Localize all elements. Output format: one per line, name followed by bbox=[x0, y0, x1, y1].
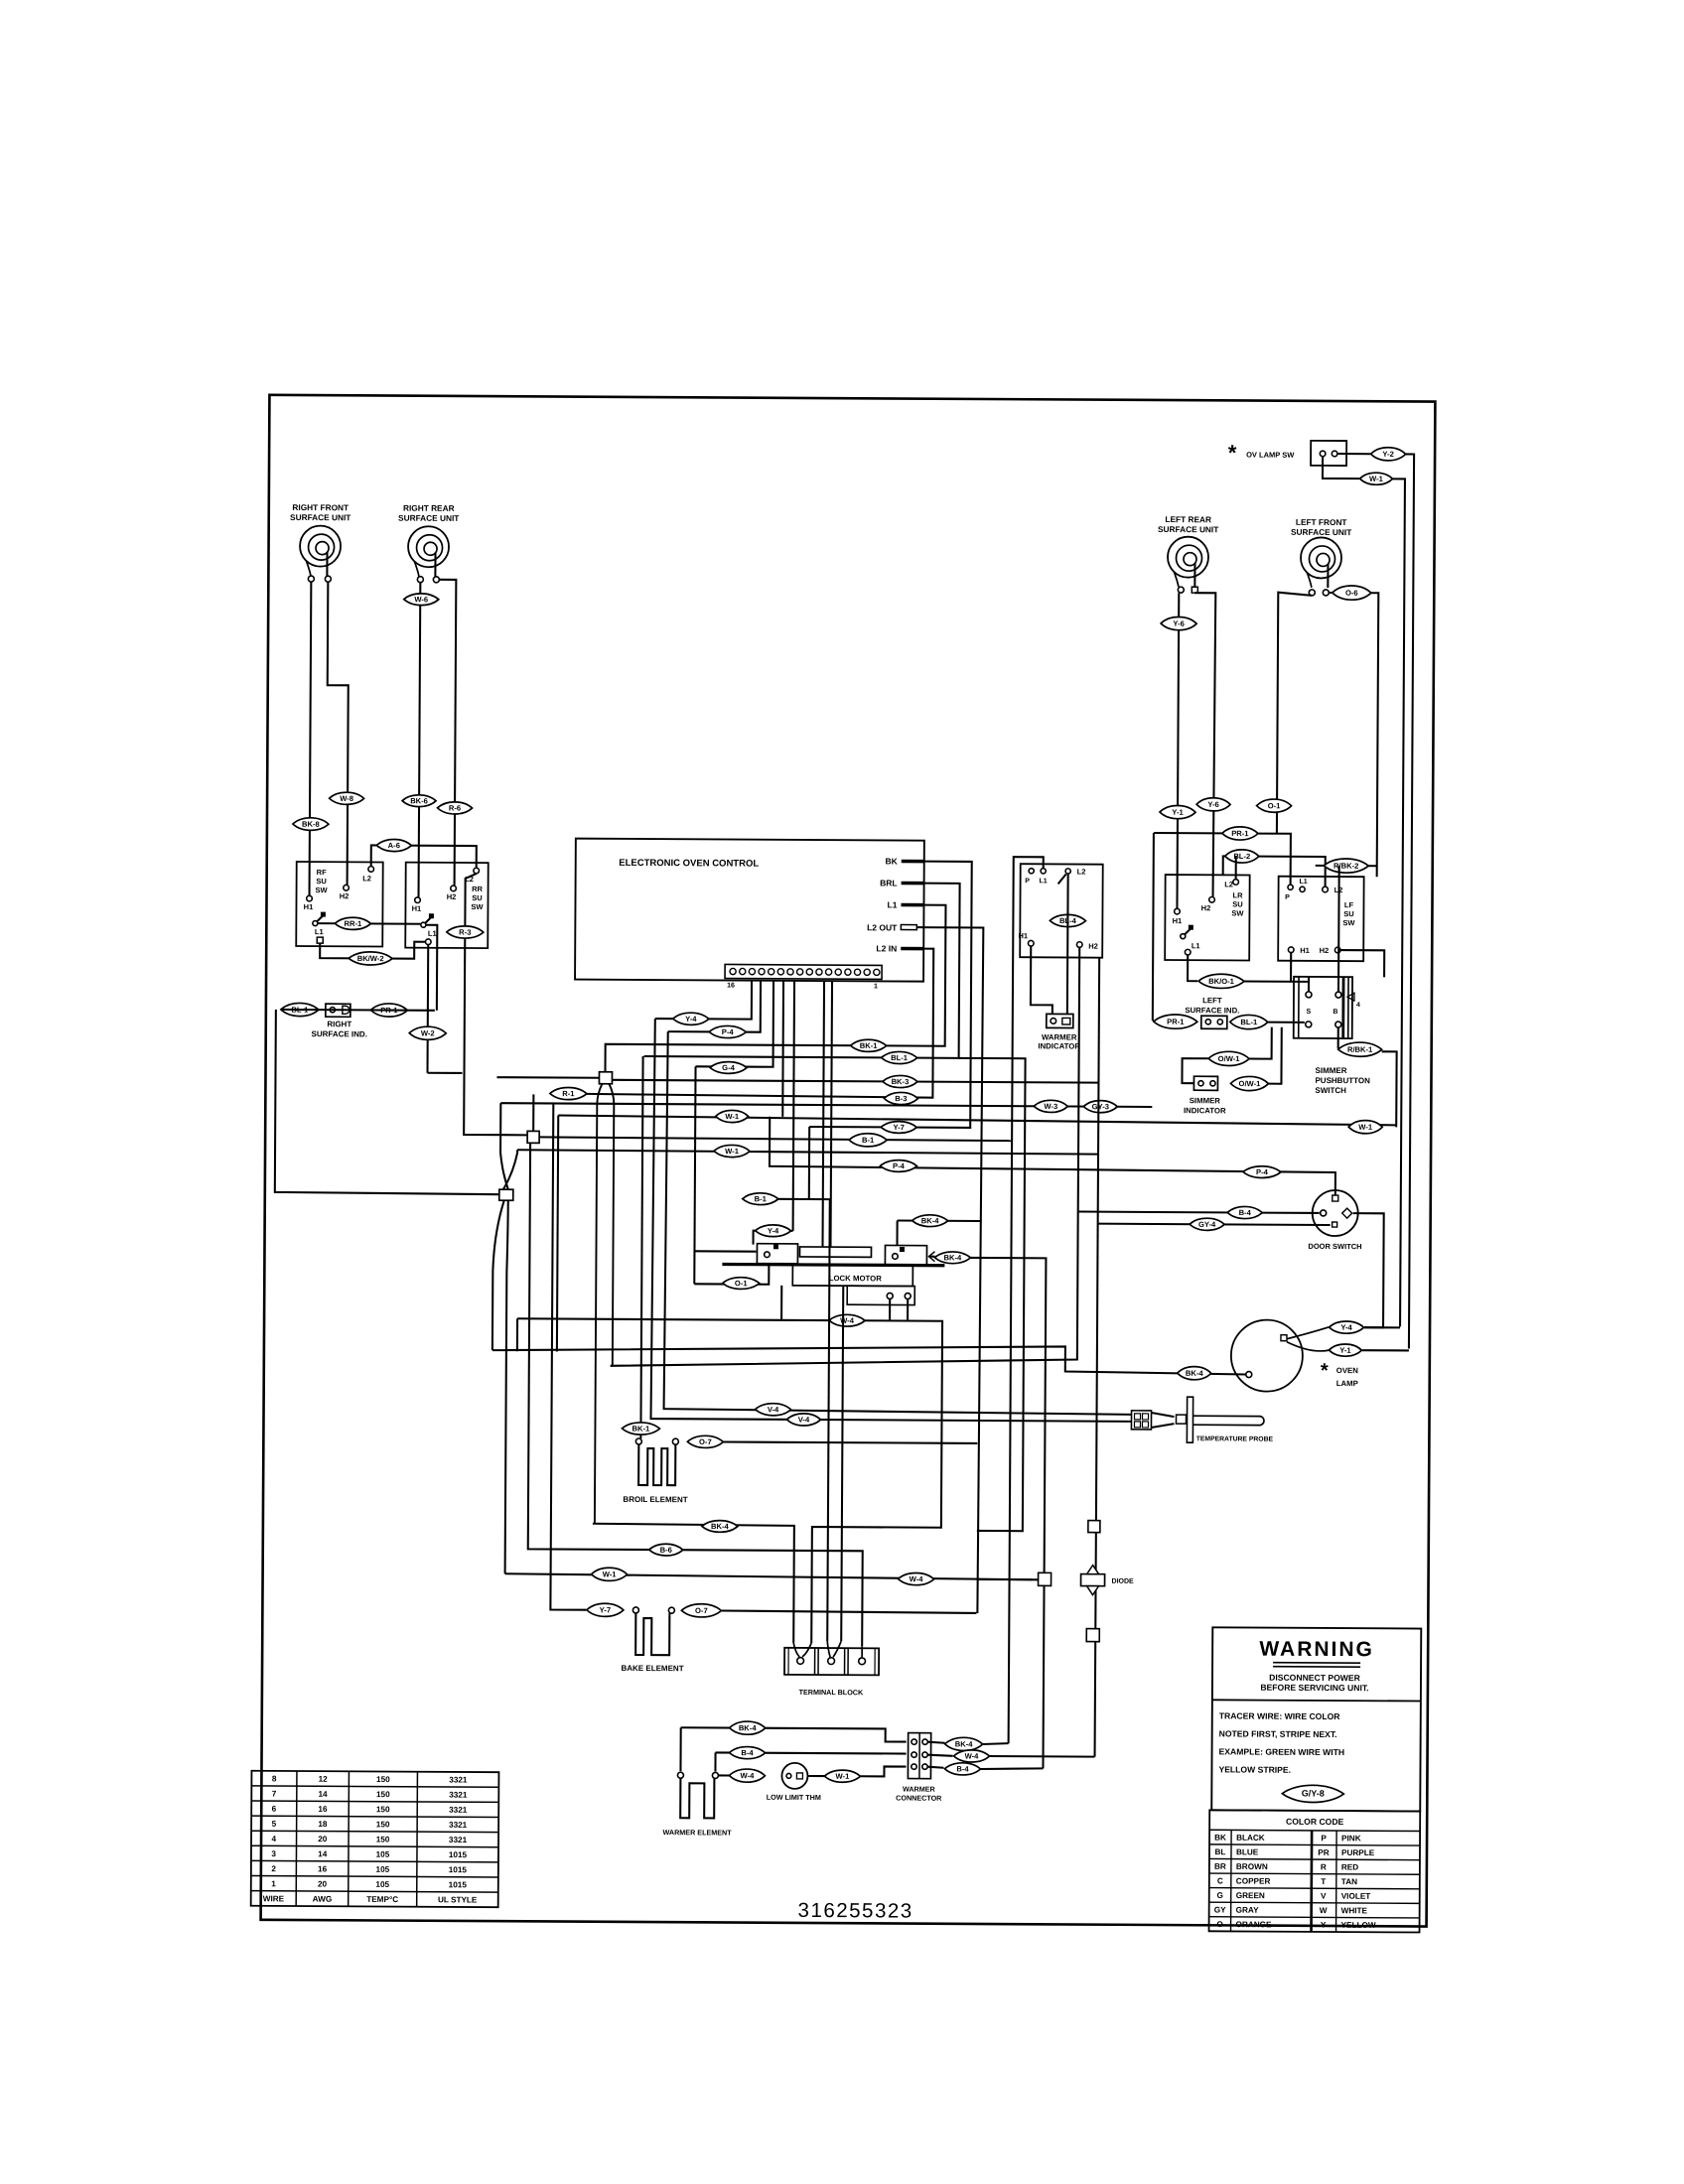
svg-text:H1: H1 bbox=[304, 902, 314, 911]
wire strip drop 4 bbox=[781, 981, 784, 1117]
svg-text:1: 1 bbox=[271, 1879, 276, 1888]
connector BL-1b bbox=[882, 1051, 917, 1063]
svg-text:BK-4: BK-4 bbox=[944, 1253, 963, 1262]
wire warmer left drop bbox=[679, 1727, 681, 1771]
svg-text:H1: H1 bbox=[412, 904, 422, 913]
svg-text:SW: SW bbox=[315, 886, 328, 894]
wire bbox=[714, 1752, 716, 1771]
svg-text:B-4: B-4 bbox=[741, 1748, 754, 1757]
RR L2 contact bbox=[474, 868, 480, 874]
svg-text:150: 150 bbox=[376, 1790, 390, 1799]
svg-text:W-1: W-1 bbox=[603, 1570, 618, 1578]
connector PR-1c bbox=[1154, 1015, 1197, 1028]
svg-text:AWG: AWG bbox=[313, 1895, 333, 1904]
connector W-2 bbox=[409, 1026, 446, 1039]
RR H1 contact bbox=[415, 897, 421, 903]
connector O-6 bbox=[1333, 586, 1371, 600]
svg-text:GY-3: GY-3 bbox=[1092, 1102, 1109, 1111]
svg-text:O/W-1: O/W-1 bbox=[1218, 1054, 1241, 1063]
svg-text:5: 5 bbox=[272, 1820, 277, 1829]
svg-text:R/BK-2: R/BK-2 bbox=[1333, 862, 1358, 871]
svg-text:1015: 1015 bbox=[449, 1880, 468, 1889]
wire simmer top left bbox=[1308, 977, 1310, 992]
wire simmer ind top bbox=[1249, 1027, 1272, 1059]
svg-text:COLOR CODE: COLOR CODE bbox=[1286, 1817, 1344, 1827]
connector W-1f bbox=[824, 1770, 860, 1782]
connector P-4a bbox=[709, 1025, 746, 1037]
svg-text:LR: LR bbox=[1233, 890, 1244, 899]
wire left drop bbox=[275, 1010, 500, 1194]
wire bbox=[428, 1072, 463, 1074]
svg-text:R: R bbox=[1321, 1862, 1327, 1871]
connector RR-1 bbox=[335, 917, 370, 929]
wire bbox=[980, 1768, 1043, 1769]
svg-text:B-6: B-6 bbox=[660, 1546, 672, 1555]
svg-text:SU: SU bbox=[1232, 899, 1242, 908]
svg-text:WARMER: WARMER bbox=[903, 1785, 936, 1794]
svg-text:LOCK MOTOR: LOCK MOTOR bbox=[829, 1274, 883, 1283]
svg-text:L1: L1 bbox=[1300, 879, 1308, 886]
wire bbox=[860, 1766, 906, 1776]
wire bbox=[977, 1578, 1039, 1580]
oven lamp switch SW1 box bbox=[1311, 441, 1346, 466]
LR H2 contact bbox=[1209, 896, 1215, 902]
svg-text:L1: L1 bbox=[315, 927, 324, 936]
svg-text:1: 1 bbox=[874, 983, 878, 990]
low limit thermostat bbox=[781, 1763, 807, 1789]
wire conn right1 bbox=[928, 1742, 945, 1743]
svg-text:Y-4: Y-4 bbox=[768, 1226, 779, 1235]
svg-text:B: B bbox=[1333, 1009, 1337, 1016]
svg-text:PURPLE: PURPLE bbox=[1341, 1848, 1375, 1857]
connector W-8 bbox=[330, 792, 364, 804]
svg-text:P-4: P-4 bbox=[893, 1161, 906, 1170]
wire H5 ext bbox=[956, 1058, 1026, 1531]
connector A-6 bbox=[376, 839, 411, 851]
wire LR L2 tap bbox=[1235, 856, 1237, 879]
EOC stub BK bbox=[902, 860, 924, 864]
wire node A row right bbox=[612, 1080, 1098, 1083]
wire lock right out bbox=[928, 1256, 934, 1258]
connector Y-4a bbox=[673, 1013, 709, 1024]
LF H1 contact bbox=[1288, 947, 1294, 953]
connector R-6 bbox=[438, 802, 473, 814]
svg-text:O-7: O-7 bbox=[695, 1606, 708, 1615]
svg-text:GY: GY bbox=[1214, 1905, 1226, 1914]
svg-text:7: 7 bbox=[272, 1790, 277, 1799]
wire bbox=[827, 1199, 830, 1641]
wire RR right lead bbox=[438, 580, 457, 886]
svg-text:BRL: BRL bbox=[880, 878, 898, 887]
svg-text:LOW LIMIT THM: LOW LIMIT THM bbox=[767, 1793, 821, 1802]
svg-text:W-1: W-1 bbox=[725, 1112, 740, 1121]
warmer connector pins bbox=[912, 1739, 916, 1744]
wire GY-4 row bbox=[1098, 1224, 1331, 1225]
node square D2 bbox=[1086, 1629, 1099, 1642]
svg-text:W: W bbox=[1320, 1906, 1328, 1915]
svg-text:150: 150 bbox=[376, 1775, 390, 1784]
warmer indicator lamp bbox=[1047, 1014, 1073, 1027]
wire bake left feed bbox=[550, 1103, 589, 1609]
right front surface unit coil bbox=[300, 526, 341, 567]
svg-text:SURFACE UNIT: SURFACE UNIT bbox=[398, 513, 459, 523]
svg-text:B-4: B-4 bbox=[1239, 1208, 1252, 1217]
wire LR left lead bbox=[1177, 593, 1179, 908]
svg-text:SW: SW bbox=[1231, 908, 1244, 917]
wire bbox=[1337, 453, 1370, 455]
wire node A up bbox=[606, 903, 946, 1074]
wire probe lower feed bbox=[664, 1031, 1134, 1415]
RF switch arm bbox=[313, 921, 318, 926]
svg-text:Y-7: Y-7 bbox=[600, 1605, 611, 1614]
svg-text:BK: BK bbox=[1214, 1834, 1226, 1843]
wire strip P-4 chain bbox=[668, 980, 761, 1032]
RF H2 contact bbox=[344, 885, 350, 890]
svg-text:H1: H1 bbox=[1018, 931, 1028, 940]
connector O-1b bbox=[723, 1278, 760, 1290]
LR L2 contact bbox=[1233, 880, 1239, 886]
connector W-6 bbox=[404, 594, 439, 606]
connector W-3 bbox=[1034, 1100, 1067, 1112]
wire warmer H1 down bbox=[1031, 946, 1052, 1014]
connector BK-4c bbox=[1178, 1367, 1211, 1380]
svg-text:SU: SU bbox=[472, 893, 482, 902]
svg-text:SU: SU bbox=[316, 877, 326, 886]
svg-text:105: 105 bbox=[375, 1880, 389, 1889]
svg-text:LAMP: LAMP bbox=[1336, 1379, 1358, 1388]
wire lamp Y-4 bbox=[1287, 1327, 1329, 1339]
connector P-4b bbox=[880, 1160, 916, 1172]
wire bbox=[516, 1318, 518, 1351]
svg-text:BR: BR bbox=[1214, 1862, 1226, 1871]
svg-text:LEFT: LEFT bbox=[1202, 996, 1222, 1005]
warmer switch box bbox=[1020, 864, 1103, 957]
svg-text:18: 18 bbox=[318, 1820, 328, 1829]
wire x616 up bbox=[611, 1365, 613, 1367]
svg-text:Y-6: Y-6 bbox=[1173, 619, 1184, 628]
LR switch arm bbox=[1181, 934, 1186, 939]
svg-text:Y-1: Y-1 bbox=[1339, 1346, 1351, 1355]
svg-text:150: 150 bbox=[376, 1805, 390, 1814]
svg-text:W-4: W-4 bbox=[910, 1574, 924, 1583]
connector Y-1b bbox=[1329, 1344, 1361, 1356]
svg-text:3321: 3321 bbox=[449, 1791, 468, 1800]
wire RR L2 chain bbox=[464, 874, 529, 1135]
svg-text:S: S bbox=[1307, 1009, 1312, 1016]
connector V-4b bbox=[786, 1414, 820, 1426]
svg-text:A-6: A-6 bbox=[388, 841, 400, 850]
svg-text:105: 105 bbox=[376, 1865, 390, 1874]
wire funnels bbox=[793, 1641, 862, 1657]
wire BK-4 row bbox=[898, 1219, 982, 1222]
EOC stub L1 bbox=[901, 903, 923, 907]
svg-text:BK/O-1: BK/O-1 bbox=[1208, 977, 1235, 986]
svg-text:WIRE: WIRE bbox=[263, 1894, 285, 1903]
svg-text:TEMP°C: TEMP°C bbox=[366, 1895, 398, 1904]
svg-text:316255323: 316255323 bbox=[798, 1899, 913, 1923]
svg-text:BK-6: BK-6 bbox=[410, 796, 428, 805]
LF L1 contact bbox=[1300, 887, 1305, 891]
connector B-1 bbox=[849, 1134, 887, 1147]
svg-text:H2: H2 bbox=[1201, 903, 1211, 912]
svg-text:LF: LF bbox=[1344, 900, 1354, 909]
svg-text:G-4: G-4 bbox=[722, 1063, 735, 1072]
temperature probe body bbox=[1193, 1416, 1264, 1425]
wire LF left lead bbox=[1277, 593, 1312, 834]
wire bbox=[1362, 1349, 1409, 1351]
left rear surface unit coil bbox=[1168, 537, 1208, 578]
wire strip drop 5 bbox=[793, 981, 794, 1231]
wire bbox=[1400, 454, 1414, 1348]
svg-text:EXAMPLE: GREEN WIRE WITH: EXAMPLE: GREEN WIRE WITH bbox=[1219, 1746, 1345, 1757]
simmer indicator lamp bbox=[1193, 1076, 1217, 1090]
warning box bbox=[1211, 1627, 1421, 1811]
door switch S2 bbox=[1313, 1190, 1358, 1236]
RR surface switch box bbox=[405, 863, 488, 948]
wire bbox=[967, 1258, 1046, 1768]
svg-text:14: 14 bbox=[318, 1790, 328, 1799]
svg-text:RIGHT REAR: RIGHT REAR bbox=[403, 503, 455, 513]
svg-text:RED: RED bbox=[1341, 1863, 1358, 1872]
terminal block pins bbox=[797, 1658, 804, 1665]
oven lamp top pin bbox=[1281, 1335, 1287, 1341]
svg-text:PUSHBUTTON: PUSHBUTTON bbox=[1315, 1076, 1370, 1085]
simmer contact B top bbox=[1335, 992, 1341, 998]
wire x562 down bbox=[557, 1116, 558, 1352]
svg-text:PR-1: PR-1 bbox=[1167, 1018, 1185, 1026]
svg-text:BK-3: BK-3 bbox=[892, 1077, 910, 1086]
svg-text:W-1: W-1 bbox=[1369, 475, 1384, 483]
svg-text:PR: PR bbox=[1318, 1848, 1330, 1857]
connector Y-6a bbox=[1161, 616, 1196, 629]
LF P contact bbox=[1288, 885, 1293, 889]
connector BK/O-1 bbox=[1198, 974, 1244, 988]
svg-text:1015: 1015 bbox=[449, 1850, 468, 1859]
svg-text:PINK: PINK bbox=[1341, 1834, 1361, 1843]
junction node A bbox=[599, 1072, 612, 1084]
svg-text:RR: RR bbox=[472, 885, 483, 893]
EOC stub L2 IN bbox=[901, 947, 923, 951]
svg-text:YELLOW STRIPE.: YELLOW STRIPE. bbox=[1218, 1764, 1291, 1774]
svg-text:H2: H2 bbox=[1088, 942, 1098, 951]
connector B-4c bbox=[944, 1763, 980, 1775]
junction node B bbox=[527, 1131, 539, 1143]
svg-text:SIMMER: SIMMER bbox=[1316, 1066, 1347, 1075]
svg-text:Y-2: Y-2 bbox=[1382, 450, 1393, 459]
wire RR L1 down bbox=[426, 945, 429, 1073]
svg-text:OVEN: OVEN bbox=[1336, 1366, 1359, 1375]
svg-text:RR-1: RR-1 bbox=[344, 919, 362, 928]
svg-text:3321: 3321 bbox=[449, 1775, 468, 1784]
wire bbox=[780, 1286, 782, 1320]
svg-text:BK-4: BK-4 bbox=[921, 1216, 940, 1225]
svg-text:T: T bbox=[1321, 1877, 1326, 1886]
lock motor right switch bbox=[885, 1245, 926, 1265]
diode D1 bbox=[1081, 1574, 1105, 1586]
svg-text:DISCONNECT POWER: DISCONNECT POWER bbox=[1269, 1673, 1361, 1684]
simmer contact S bottom bbox=[1306, 1022, 1312, 1027]
connector R-1 bbox=[550, 1087, 587, 1099]
wire BK chain bbox=[809, 861, 972, 1128]
svg-text:OV LAMP SW: OV LAMP SW bbox=[1246, 450, 1295, 459]
right rear surface unit terminals bbox=[417, 577, 423, 583]
svg-text:BLACK: BLACK bbox=[1236, 1834, 1265, 1843]
wire BL-2 row bbox=[1223, 856, 1326, 887]
connector Y-4c bbox=[756, 1225, 791, 1237]
connector B-6 bbox=[649, 1544, 683, 1556]
svg-text:B-1: B-1 bbox=[755, 1194, 768, 1203]
svg-text:UL STYLE: UL STYLE bbox=[438, 1895, 478, 1904]
connector BK-4a bbox=[912, 1215, 948, 1227]
svg-text:TEMPERATURE PROBE: TEMPERATURE PROBE bbox=[1196, 1435, 1274, 1442]
svg-text:L1: L1 bbox=[1192, 941, 1200, 950]
temperature probe taper bbox=[1152, 1413, 1175, 1417]
simmer contact B bottom bbox=[1335, 1022, 1341, 1027]
oven lamp left pin bbox=[1246, 1372, 1252, 1378]
svg-text:R/BK-1: R/BK-1 bbox=[1347, 1045, 1373, 1054]
svg-text:14: 14 bbox=[318, 1849, 328, 1858]
LR H1 contact bbox=[1175, 908, 1181, 914]
door switch left pin bbox=[1321, 1210, 1327, 1216]
svg-text:P-4: P-4 bbox=[722, 1027, 735, 1036]
right front surface unit terminals bbox=[308, 576, 314, 582]
connector R/BK-2 bbox=[1324, 859, 1368, 873]
connector R-3 bbox=[447, 926, 484, 938]
svg-text:G: G bbox=[1217, 1891, 1223, 1900]
LF H2 contact bbox=[1334, 947, 1340, 953]
wire y1359 row bbox=[492, 1343, 1246, 1374]
svg-text:3321: 3321 bbox=[449, 1821, 468, 1830]
wire bbox=[1364, 1326, 1400, 1328]
wire bbox=[1387, 478, 1405, 1326]
wire y1157 row bbox=[517, 1150, 1098, 1154]
svg-text:WARMER ELEMENT: WARMER ELEMENT bbox=[663, 1828, 733, 1837]
svg-text:WARMER: WARMER bbox=[1042, 1032, 1077, 1041]
wire gauge table bbox=[251, 1771, 499, 1907]
svg-text:SW: SW bbox=[471, 902, 484, 911]
svg-text:150: 150 bbox=[376, 1835, 390, 1843]
svg-text:RIGHT: RIGHT bbox=[327, 1020, 351, 1028]
wire strip Y-4 chain bbox=[655, 980, 752, 1020]
connector R/BK-1 bbox=[1338, 1042, 1382, 1056]
svg-text:P: P bbox=[1321, 1834, 1327, 1843]
RR H2 contact bbox=[451, 886, 457, 891]
warmer connector bbox=[908, 1733, 930, 1779]
wire RF L1 to RR L1 bbox=[320, 941, 425, 959]
connector BL-1c bbox=[1230, 1015, 1268, 1028]
svg-text:TAN: TAN bbox=[1341, 1877, 1357, 1886]
wire strip G-4 chain bbox=[696, 980, 773, 1066]
connector BK-8 bbox=[293, 818, 329, 831]
svg-text:20: 20 bbox=[318, 1835, 328, 1843]
svg-text:20: 20 bbox=[318, 1879, 328, 1888]
wire lock pin drops bbox=[889, 1298, 891, 1320]
simmer contact S top bbox=[1306, 992, 1312, 998]
wire B-6 row bbox=[527, 1143, 865, 1646]
wire node A row bbox=[496, 1076, 599, 1079]
svg-text:LEFT FRONT: LEFT FRONT bbox=[1296, 517, 1347, 527]
svg-text:2: 2 bbox=[271, 1864, 276, 1873]
svg-text:DIODE: DIODE bbox=[1112, 1578, 1135, 1585]
RF L2 contact bbox=[368, 867, 374, 873]
svg-text:L1: L1 bbox=[428, 929, 437, 938]
svg-text:GRAY: GRAY bbox=[1236, 1906, 1259, 1915]
svg-text:BK-4: BK-4 bbox=[1186, 1369, 1204, 1378]
svg-text:WARNING: WARNING bbox=[1259, 1638, 1374, 1662]
wire RF left lead bbox=[310, 582, 312, 895]
wire simmer ind left bbox=[1182, 1058, 1207, 1083]
junction node C bbox=[499, 1189, 513, 1200]
svg-text:Y-7: Y-7 bbox=[893, 1123, 904, 1132]
wire RF right lead bbox=[327, 582, 350, 885]
svg-text:SURFACE IND.: SURFACE IND. bbox=[1185, 1006, 1239, 1015]
svg-text:GREEN: GREEN bbox=[1236, 1891, 1265, 1900]
svg-text:W-2: W-2 bbox=[421, 1028, 435, 1037]
svg-text:4: 4 bbox=[1356, 1002, 1360, 1009]
wire bbox=[1244, 980, 1309, 982]
LF L2 contact bbox=[1323, 887, 1329, 892]
svg-text:B-3: B-3 bbox=[895, 1094, 907, 1103]
wire indicator row bbox=[281, 1009, 435, 1012]
svg-text:BEFORE SERVICING UNIT.: BEFORE SERVICING UNIT. bbox=[1260, 1683, 1368, 1694]
bake element terminals bbox=[632, 1607, 638, 1613]
bake element bbox=[635, 1613, 669, 1655]
wire O-1 row bbox=[694, 1263, 769, 1284]
svg-text:P: P bbox=[1285, 894, 1290, 901]
svg-text:V-4: V-4 bbox=[798, 1416, 810, 1425]
connector BK-3 bbox=[883, 1075, 917, 1087]
svg-text:BLUE: BLUE bbox=[1236, 1847, 1259, 1856]
wire y1122 row bbox=[558, 1116, 1396, 1126]
warmer L1 contact bbox=[1041, 869, 1046, 874]
EOC stub BRL bbox=[902, 882, 924, 886]
svg-text:H2: H2 bbox=[1320, 946, 1330, 955]
electronic oven control U1 box bbox=[575, 839, 924, 982]
svg-text:105: 105 bbox=[376, 1850, 390, 1859]
svg-text:LEFT REAR: LEFT REAR bbox=[1165, 514, 1211, 524]
svg-text:BROWN: BROWN bbox=[1236, 1862, 1268, 1871]
svg-text:VIOLET: VIOLET bbox=[1341, 1892, 1371, 1901]
border frame bbox=[261, 395, 1436, 1927]
broil element bbox=[638, 1444, 675, 1485]
wire LR right lead bbox=[1193, 593, 1216, 896]
wire RR left lead bbox=[419, 583, 421, 897]
connector BK-4e bbox=[730, 1721, 766, 1734]
right surface indicator lamp bbox=[326, 1004, 351, 1017]
connector O/W-1b bbox=[1230, 1076, 1268, 1090]
svg-text:Y: Y bbox=[1321, 1921, 1327, 1930]
svg-text:Y-1: Y-1 bbox=[1172, 808, 1184, 817]
svg-text:TERMINAL BLOCK: TERMINAL BLOCK bbox=[799, 1688, 864, 1697]
wire broil right bbox=[723, 1441, 977, 1442]
temperature probe flange bbox=[1187, 1397, 1193, 1442]
lock motor pins bbox=[887, 1293, 893, 1298]
svg-text:12: 12 bbox=[319, 1775, 329, 1784]
wire simmer top right bbox=[1337, 866, 1340, 992]
wire bake right bbox=[721, 1610, 976, 1612]
svg-text:SURFACE UNIT: SURFACE UNIT bbox=[1158, 524, 1218, 534]
svg-text:W-4: W-4 bbox=[965, 1751, 980, 1760]
connector V-4a bbox=[756, 1404, 791, 1416]
svg-text:RIGHT FRONT: RIGHT FRONT bbox=[292, 502, 349, 512]
wire simmer B btm down bbox=[1337, 1027, 1339, 1048]
svg-text:W-4: W-4 bbox=[741, 1771, 756, 1780]
svg-text:INDICATOR: INDICATOR bbox=[1038, 1041, 1080, 1050]
svg-text:O/W-1: O/W-1 bbox=[1239, 1079, 1262, 1088]
wire bbox=[807, 1775, 824, 1777]
connector BK-6 bbox=[402, 795, 436, 807]
wire bbox=[983, 1743, 1009, 1744]
